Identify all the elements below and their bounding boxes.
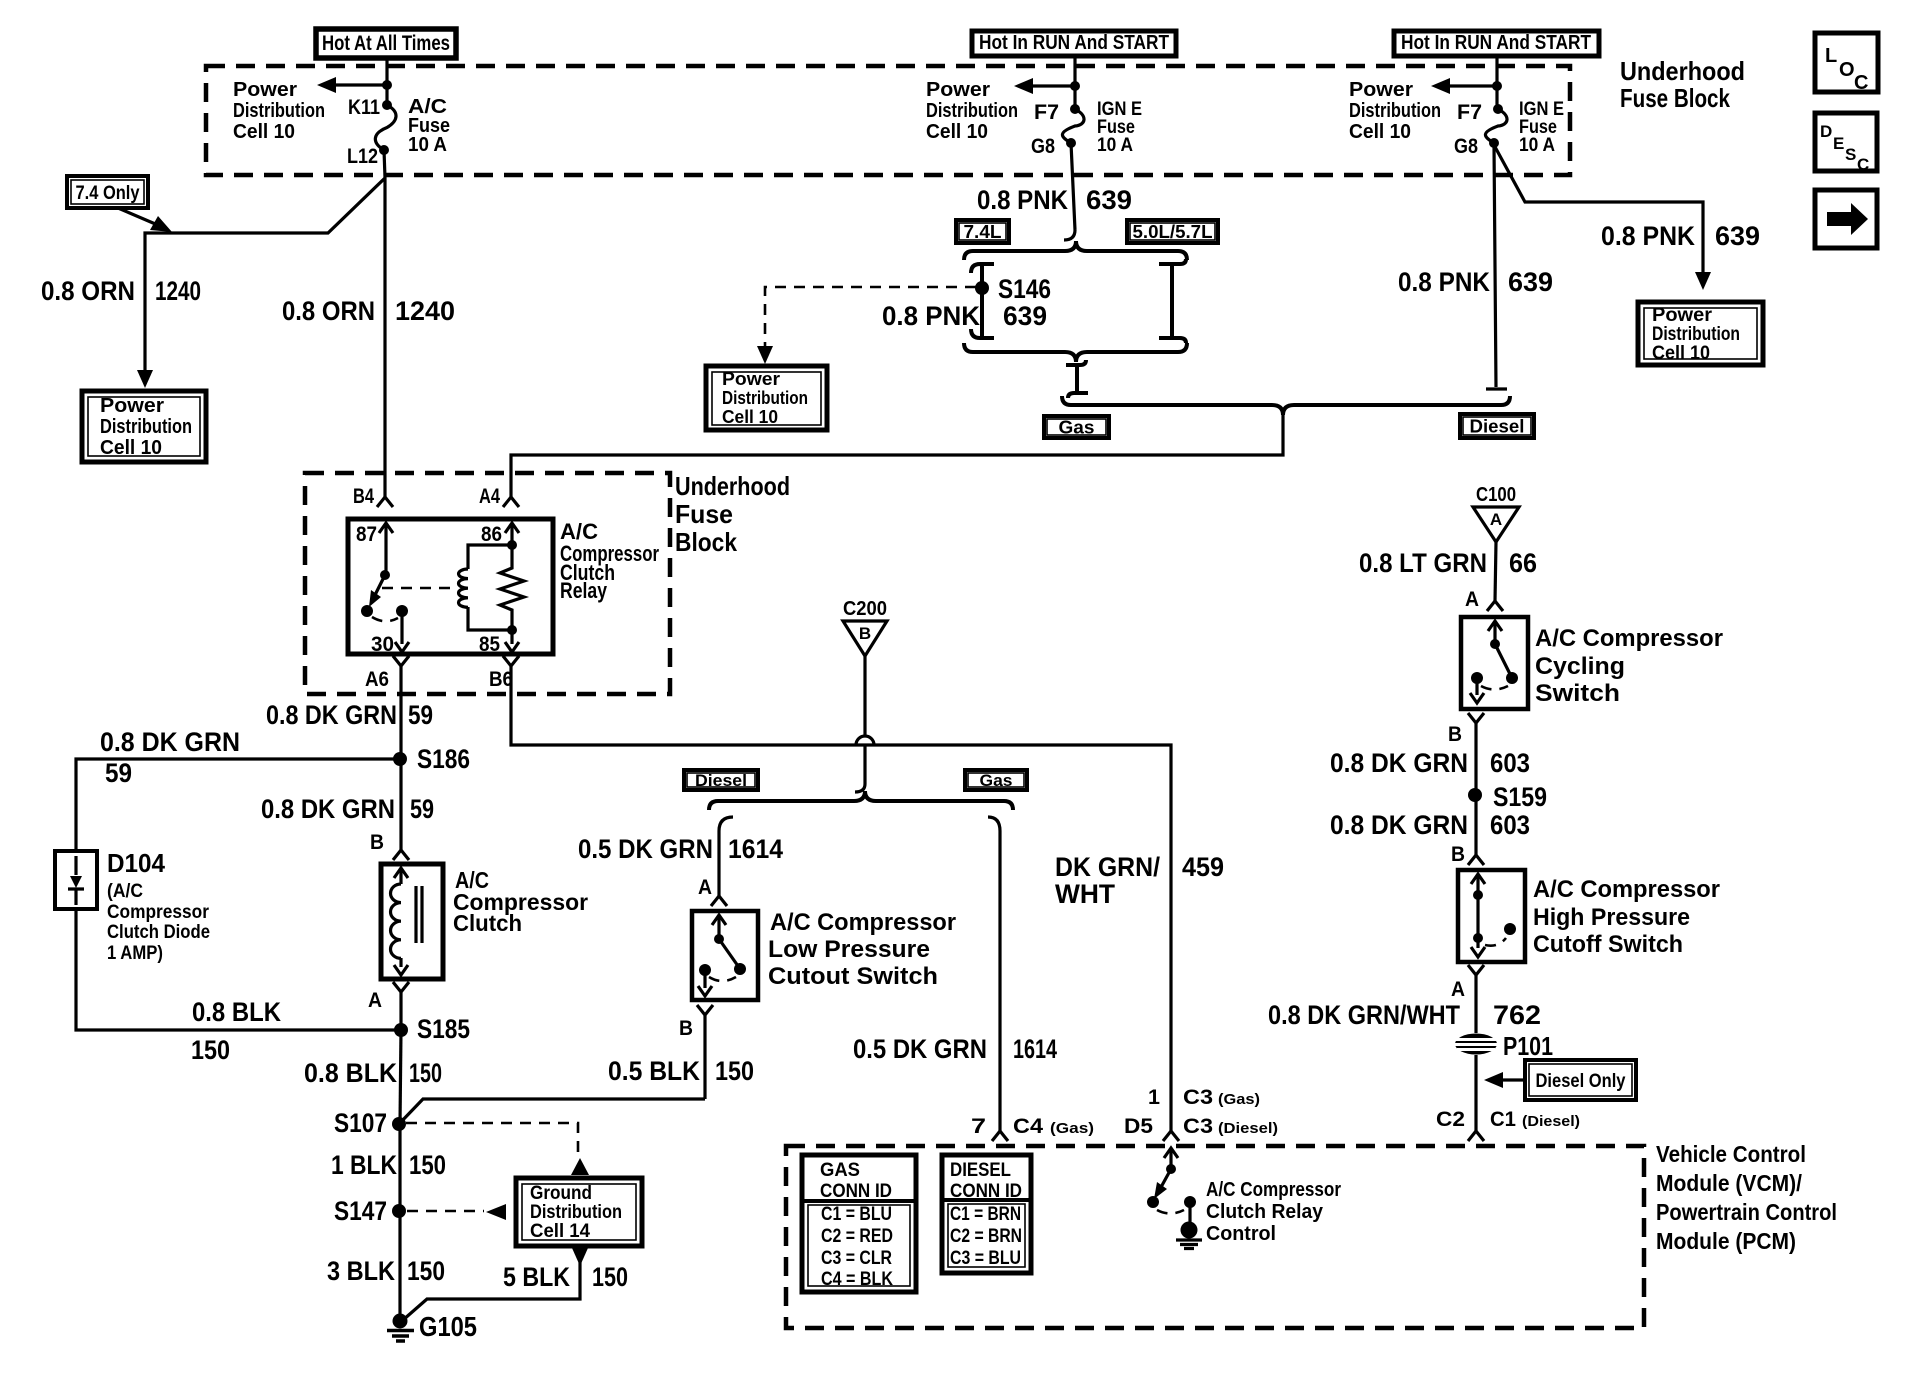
arrow from 7.4 Only box to wire: [118, 208, 172, 232]
svg-text:1614: 1614: [728, 834, 783, 864]
svg-text:O: O: [1839, 59, 1855, 81]
svg-text:0.8 DK GRN: 0.8 DK GRN: [100, 727, 240, 757]
svg-text:Distribution: Distribution: [233, 100, 325, 122]
VCM/PCM dashed outline: [786, 1146, 1644, 1328]
svg-text:Cell 10: Cell 10: [100, 437, 162, 459]
svg-text:Cell 10: Cell 10: [233, 121, 295, 143]
low pressure switch contacts: [698, 915, 746, 996]
wire label 0.8 DK GRN 59 (below S186): [261, 794, 434, 824]
svg-text:Clutch: Clutch: [453, 910, 522, 936]
svg-text:Power: Power: [1652, 305, 1713, 326]
wire from C200 down with hop over B6 wire: [855, 656, 874, 792]
splice S107: [334, 1108, 406, 1138]
svg-text:Distribution: Distribution: [100, 416, 192, 438]
svg-text:High Pressure: High Pressure: [1533, 904, 1690, 931]
wire label 0.5 DK GRN 1614 (diesel): [578, 834, 783, 864]
svg-text:59: 59: [408, 700, 433, 730]
svg-text:C2: C2: [1436, 1108, 1465, 1131]
svg-text:A/C Compressor: A/C Compressor: [1535, 625, 1723, 652]
svg-text:5.0L/5.7L: 5.0L/5.7L: [1133, 222, 1213, 242]
label box 5.0L/5.7L: [1127, 220, 1218, 243]
svg-text:E: E: [1833, 134, 1844, 153]
svg-text:66: 66: [1509, 548, 1537, 578]
svg-text:Hot At All Times: Hot At All Times: [322, 32, 450, 55]
label A/C Compressor Clutch Relay Control: [1206, 1179, 1341, 1245]
ground symbol (PCM clutch relay control): [1176, 1222, 1202, 1249]
svg-text:L12: L12: [347, 145, 378, 168]
wire 3 BLK 150 S147 to G105: [398, 1211, 401, 1318]
svg-text:Clutch Relay: Clutch Relay: [1206, 1201, 1324, 1223]
wire label 0.8 PNK 639 (at S146): [882, 301, 1047, 331]
svg-text:Gas: Gas: [1059, 417, 1095, 437]
svg-text:Diesel Only: Diesel Only: [1536, 1071, 1626, 1092]
wire label 3 BLK 150: [327, 1256, 445, 1286]
svg-text:85: 85: [479, 633, 500, 656]
label Power Distribution Cell 10 (top left): [233, 79, 325, 143]
svg-text:WHT: WHT: [1055, 879, 1115, 909]
svg-text:Power: Power: [233, 79, 297, 101]
svg-text:B: B: [370, 831, 384, 854]
svg-text:Distribution: Distribution: [722, 388, 808, 408]
svg-text:639: 639: [1003, 301, 1047, 331]
wire DK GRN from relay B6 to PCM control: [511, 666, 1171, 1131]
box Ground Distribution Cell 14: [516, 1178, 642, 1246]
svg-text:Switch: Switch: [1535, 680, 1620, 707]
cycling switch contacts: [1470, 621, 1518, 703]
svg-text:1 BLK: 1 BLK: [331, 1150, 397, 1180]
svg-text:0.8 DK GRN: 0.8 DK GRN: [1330, 810, 1468, 840]
wire label 0.8 BLK 150 (two-line left): [191, 997, 281, 1065]
label IGN E Fuse 10 A (right): [1519, 99, 1564, 156]
wire L12 down through fuse block edge: [384, 150, 385, 178]
splice S147: [334, 1196, 406, 1226]
svg-text:A: A: [698, 876, 712, 899]
wire 0.8 PNK 639 from G8 down (middle): [1064, 143, 1075, 240]
svg-text:A: A: [1490, 510, 1502, 529]
diode D104 symbol: [68, 856, 84, 905]
svg-text:Clutch Diode: Clutch Diode: [107, 922, 210, 943]
wire label 1 BLK 150: [331, 1150, 446, 1180]
pin A label and connector (cycling switch): [1465, 588, 1503, 611]
wire label 0.5 BLK 150: [608, 1056, 754, 1086]
splice S159: [1468, 782, 1547, 812]
wire label 0.8 ORN 1240 (left): [41, 276, 201, 306]
dashed reference S147 to Ground Distribution: [407, 1204, 506, 1220]
svg-text:(Gas): (Gas): [1050, 1120, 1094, 1137]
label box 7.4L: [956, 220, 1009, 243]
pin B6 label and connector: [489, 656, 519, 691]
wire 0.8 DK GRN/WHT 762: [1474, 975, 1477, 1033]
splice S146: [975, 274, 1051, 304]
svg-text:0.5 BLK: 0.5 BLK: [608, 1056, 700, 1086]
svg-text:0.8 PNK: 0.8 PNK: [977, 185, 1068, 215]
svg-text:0.8 DK GRN: 0.8 DK GRN: [261, 794, 395, 824]
svg-text:150: 150: [191, 1035, 230, 1065]
wire clutch A to S185: [399, 992, 402, 1030]
svg-text:A/C Compressor: A/C Compressor: [770, 909, 956, 936]
svg-text:C2 = RED: C2 = RED: [821, 1226, 893, 1247]
label D104 A/C Compressor Clutch Diode 1 AMP: [107, 848, 210, 964]
svg-text:Vehicle Control: Vehicle Control: [1656, 1141, 1806, 1167]
pin B label and connector (low pressure switch): [679, 1005, 713, 1040]
A/C Compressor Low Pressure Cutout Switch box: [692, 911, 758, 1000]
svg-text:B4: B4: [353, 485, 374, 508]
wire 0.8 BLK 150 from D104 to S185: [76, 909, 395, 1030]
svg-text:0.8 PNK: 0.8 PNK: [882, 301, 980, 331]
svg-text:Powertrain Control: Powertrain Control: [1656, 1199, 1837, 1225]
svg-text:0.5 DK GRN: 0.5 DK GRN: [853, 1034, 987, 1064]
svg-text:Cell 10: Cell 10: [926, 121, 988, 143]
svg-text:150: 150: [592, 1262, 628, 1292]
high pressure switch contacts: [1471, 874, 1516, 957]
svg-text:7.4L: 7.4L: [964, 222, 1002, 242]
svg-text:D: D: [1820, 122, 1832, 141]
label box "7.4 Only": [67, 176, 148, 208]
arrow to Power Distribution Cell 10 (right): [1431, 78, 1502, 94]
svg-text:7.4 Only: 7.4 Only: [76, 183, 140, 204]
pin A label and connector (high pressure switch): [1451, 965, 1484, 1001]
svg-text:Module (VCM)/: Module (VCM)/: [1656, 1170, 1803, 1196]
svg-text:Hot In RUN And START: Hot In RUN And START: [979, 32, 1169, 54]
PCM internal clutch relay control switch: [1147, 1148, 1196, 1226]
svg-text:B: B: [679, 1017, 693, 1040]
clutch coil symbol: [391, 868, 423, 975]
pin B label and connector (cycling switch): [1448, 713, 1484, 746]
wire label 0.8 DK GRN/WHT 762: [1268, 1000, 1541, 1030]
svg-text:A: A: [1451, 978, 1465, 1001]
svg-text:(A/C: (A/C: [107, 881, 143, 902]
svg-text:G8: G8: [1031, 135, 1055, 158]
label A/C Compressor Clutch: [453, 867, 588, 936]
svg-text:B: B: [1451, 843, 1465, 866]
icon box right-arrow: [1815, 190, 1877, 248]
pin G8 label (right): [1454, 135, 1478, 158]
svg-text:Underhood: Underhood: [1620, 56, 1745, 86]
svg-text:S147: S147: [334, 1196, 387, 1226]
pin F7 label (right): [1457, 101, 1482, 124]
pin K11 label: [348, 96, 380, 119]
svg-text:Compressor: Compressor: [107, 902, 210, 923]
label box Diesel Only with arrow: [1484, 1060, 1636, 1100]
wire label DK GRN/WHT 459: [1055, 852, 1224, 909]
fuse IGN E Fuse 10A (middle): [1062, 104, 1084, 148]
wire from fuel-option merge down to A4 feed line: [511, 413, 1283, 497]
arrow into Power Distribution Cell 10 (far right): [1695, 272, 1711, 290]
relay pin 86 (arrow up) and label: [481, 523, 519, 546]
svg-text:A4: A4: [479, 485, 500, 508]
svg-text:0.8 DK GRN: 0.8 DK GRN: [266, 700, 397, 730]
underhood fuse block (top) dashed outline: [206, 66, 1570, 175]
wire label 0.8 BLK 150 (below S185): [304, 1058, 442, 1088]
svg-text:150: 150: [407, 1256, 445, 1286]
dashed reference wire S146 to Power Distribution: [765, 287, 976, 348]
svg-text:1: 1: [1148, 1086, 1160, 1109]
wire from Hot In RUN to fuse F7 (middle): [1073, 55, 1076, 109]
pin A6 label and connector: [365, 656, 409, 691]
svg-text:1240: 1240: [395, 296, 455, 326]
box Power Distribution Cell 10 (far right): [1638, 302, 1763, 365]
table DIESEL CONN ID: [942, 1155, 1031, 1273]
svg-text:10 A: 10 A: [1097, 135, 1133, 156]
svg-text:B: B: [859, 624, 871, 643]
wire label 0.5 DK GRN 1614 (gas): [853, 1034, 1057, 1064]
svg-text:A6: A6: [365, 668, 389, 691]
svg-text:C1: C1: [1490, 1108, 1516, 1131]
svg-text:D104: D104: [107, 848, 166, 878]
svg-text:87: 87: [356, 523, 377, 546]
svg-text:Gas: Gas: [980, 771, 1013, 790]
wire P101 to PCM C1/C2: [1474, 1055, 1477, 1131]
wire 7.4L branch with S146 splice: [971, 264, 994, 338]
svg-text:S186: S186: [417, 744, 470, 774]
svg-text:0.8 ORN: 0.8 ORN: [41, 276, 135, 306]
ground G105: [387, 1311, 477, 1342]
svg-text:A/C Compressor: A/C Compressor: [1206, 1179, 1341, 1201]
svg-text:150: 150: [715, 1056, 754, 1086]
svg-text:C3: C3: [1183, 1115, 1213, 1138]
svg-text:Diesel: Diesel: [695, 771, 747, 790]
svg-text:DIESEL: DIESEL: [950, 1160, 1011, 1181]
pin A label and connector (clutch): [368, 982, 409, 1012]
fuse A/C Fuse 10A (K11-L12): [375, 100, 396, 155]
label Vehicle Control Module (VCM)/ Powertrain Control Module (PCM): [1656, 1141, 1837, 1254]
svg-text:CONN ID: CONN ID: [950, 1181, 1022, 1202]
icon box DESC: [1815, 113, 1877, 174]
label Power Distribution Cell 10 (middle): [926, 79, 1018, 143]
svg-text:Low Pressure: Low Pressure: [768, 936, 930, 963]
A/C Compressor Cycling Switch box: [1461, 617, 1528, 709]
wire 0.8 DK GRN 603 to high pressure switch: [1474, 795, 1477, 855]
wire 1 BLK 150 S107 to S147: [398, 1124, 401, 1211]
label IGN E Fuse 10 A (middle): [1097, 99, 1142, 156]
svg-text:S107: S107: [334, 1108, 387, 1138]
svg-text:Cutout Switch: Cutout Switch: [768, 963, 938, 990]
svg-text:C3 = BLU: C3 = BLU: [950, 1248, 1021, 1269]
svg-text:C3: C3: [1183, 1086, 1213, 1109]
relay box A/C Compressor Clutch Relay: [348, 519, 553, 654]
svg-text:F7: F7: [1034, 101, 1059, 124]
svg-text:30: 30: [371, 633, 394, 656]
wire 0.8 LT GRN 66 from C100: [1495, 542, 1496, 601]
svg-text:Distribution: Distribution: [1652, 324, 1740, 345]
wire label 5 BLK 150: [503, 1262, 628, 1292]
wire label 0.8 DK GRN 603 (lower): [1330, 810, 1530, 840]
pin A4 label and connector: [479, 485, 519, 508]
pin B label and connector (high pressure switch): [1451, 843, 1484, 866]
wire 0.8 PNK 639 branch to Power Distribution (right): [1494, 145, 1703, 272]
svg-text:0.8 PNK: 0.8 PNK: [1601, 221, 1695, 251]
A/C Compressor Clutch box: [381, 864, 443, 979]
svg-text:C100: C100: [1476, 484, 1516, 506]
svg-text:0.8 DK GRN/WHT: 0.8 DK GRN/WHT: [1268, 1000, 1460, 1030]
svg-text:150: 150: [409, 1058, 442, 1088]
wire from Hot In RUN to fuse F7 (right): [1495, 55, 1498, 109]
svg-text:Distribution: Distribution: [1349, 100, 1441, 122]
svg-text:Cell 10: Cell 10: [1349, 121, 1411, 143]
svg-text:Relay: Relay: [560, 578, 608, 603]
svg-text:603: 603: [1490, 748, 1530, 778]
wire Diesel branch 0.5 DK GRN 1614: [719, 817, 733, 896]
pin B4 label and connector: [353, 485, 393, 508]
label box Diesel (lower): [684, 770, 758, 790]
svg-text:Distribution: Distribution: [530, 1202, 622, 1223]
fuse IGN E Fuse 10A (right): [1485, 104, 1507, 148]
icon box LOC: [1815, 33, 1878, 94]
box Power Distribution Cell 10 (middle): [706, 366, 827, 430]
svg-text:CONN ID: CONN ID: [820, 1181, 892, 1202]
pin 7 / C4 (Gas) connector at PCM: [971, 1115, 1094, 1141]
wire from Hot At All Times to fuse K11: [385, 57, 388, 105]
wire label 0.8 DK GRN 603 (upper): [1330, 748, 1530, 778]
wire 0.8 PNK 639 vertical (diesel feed): [1486, 145, 1507, 389]
grommet P101: [1455, 1031, 1553, 1061]
wire 0.8 DK GRN 59 from S186 to clutch B: [399, 759, 402, 850]
svg-text:Power: Power: [1349, 79, 1413, 101]
table GAS CONN ID: [802, 1155, 916, 1292]
label A/C Compressor High Pressure Cutoff Switch: [1533, 876, 1720, 958]
wire Gas branch DK GRN 1614 to PCM C4: [988, 817, 1000, 1131]
svg-text:59: 59: [105, 758, 132, 788]
svg-text:DK GRN/: DK GRN/: [1055, 852, 1160, 882]
brace split (Diesel/Gas at C200): [709, 791, 1013, 810]
pin L12 label: [347, 145, 378, 168]
wire label 0.8 PNK 639 (far right): [1601, 221, 1760, 251]
svg-text:C1 = BRN: C1 = BRN: [950, 1204, 1021, 1225]
wire label 0.8 ORN 1240 (main): [282, 296, 455, 326]
svg-text:C: C: [1857, 155, 1869, 174]
svg-text:P101: P101: [1503, 1031, 1553, 1061]
wire segment below engine-option merge: [1066, 360, 1088, 398]
box Power Distribution Cell 10 (left): [82, 391, 206, 462]
arrow to Power Distribution Cell 10 (middle): [1014, 78, 1080, 94]
svg-text:(Gas): (Gas): [1218, 1091, 1260, 1108]
wire label 0.8 PNK 639 (middle): [977, 185, 1132, 215]
svg-text:1240: 1240: [155, 276, 201, 306]
svg-text:459: 459: [1182, 852, 1224, 882]
svg-text:D5: D5: [1124, 1115, 1153, 1138]
svg-text:G105: G105: [419, 1311, 477, 1342]
relay coil (inductor): [459, 545, 513, 607]
svg-text:(Diesel): (Diesel): [1218, 1120, 1278, 1137]
pin C2 / C1 (Diesel) connector at PCM: [1436, 1108, 1580, 1141]
brace merge (Gas/Diesel fuel options): [1062, 396, 1510, 415]
svg-text:Underhood: Underhood: [675, 471, 790, 501]
label A/C Compressor Clutch Relay: [560, 519, 659, 603]
relay pin 87 (arrow up) and label: [356, 523, 393, 580]
svg-text:0.8 ORN: 0.8 ORN: [282, 296, 375, 326]
label Power Distribution Cell 10 (right): [1349, 79, 1441, 143]
svg-text:10 A: 10 A: [408, 134, 447, 156]
svg-text:C4 = BLK: C4 = BLK: [821, 1269, 893, 1290]
svg-text:5 BLK: 5 BLK: [503, 1262, 570, 1292]
label box "Hot In RUN And START" (right): [1394, 31, 1599, 56]
pin F7 label (middle): [1034, 101, 1059, 124]
label box Gas (upper): [1044, 416, 1109, 438]
arrow to Power Distribution Cell 10 (left): [317, 77, 392, 93]
svg-text:59: 59: [410, 794, 434, 824]
svg-text:Cell 10: Cell 10: [722, 407, 778, 427]
connector C200 triangle: [843, 598, 887, 656]
svg-text:3 BLK: 3 BLK: [327, 1256, 395, 1286]
label A/C Compressor Low Pressure Cutout Switch: [768, 909, 956, 990]
label box Diesel (upper): [1460, 414, 1534, 438]
svg-text:Block: Block: [675, 527, 737, 557]
diode D104 box: [55, 851, 97, 909]
relay switch blade 87-30: [361, 575, 385, 617]
svg-text:C3 = CLR: C3 = CLR: [821, 1248, 892, 1269]
svg-text:Distribution: Distribution: [926, 100, 1018, 122]
svg-text:150: 150: [409, 1150, 446, 1180]
svg-text:1614: 1614: [1013, 1034, 1057, 1064]
svg-text:K11: K11: [348, 96, 380, 119]
relay actuation dashed link: [382, 587, 458, 590]
pin G8 label (middle): [1031, 135, 1055, 158]
svg-text:0.8 DK GRN: 0.8 DK GRN: [1330, 748, 1468, 778]
relay pin 30 (arrow down) and label: [371, 605, 409, 656]
svg-text:Cycling: Cycling: [1535, 653, 1625, 680]
svg-text:0.8 PNK: 0.8 PNK: [1398, 267, 1490, 297]
connector C100 triangle: [1473, 484, 1519, 542]
label Underhood Fuse Block (relay): [675, 471, 790, 557]
svg-text:Cell 14: Cell 14: [530, 1221, 590, 1242]
svg-text:Control: Control: [1206, 1223, 1276, 1245]
svg-text:Power: Power: [100, 395, 164, 417]
wire 0.8 BLK 150 from S185 to S107: [400, 1030, 401, 1124]
wire 0.8 DK GRN 603 to S159: [1474, 723, 1477, 795]
label A/C Compressor Cycling Switch: [1535, 625, 1723, 707]
splice S185: [394, 1014, 470, 1044]
svg-text:A: A: [368, 989, 382, 1012]
wire label 0.8 LT GRN 66: [1359, 548, 1537, 578]
relay coil (inductor) lower lead: [468, 607, 512, 630]
svg-text:Cutoff Switch: Cutoff Switch: [1533, 931, 1683, 958]
brace split (engine options) upper: [964, 241, 1187, 260]
svg-text:Hot In RUN And START: Hot In RUN And START: [1401, 32, 1591, 54]
svg-text:C2 = BRN: C2 = BRN: [950, 1226, 1022, 1247]
A/C Compressor High Pressure Cutoff Switch box: [1458, 870, 1525, 962]
svg-text:Diesel: Diesel: [1470, 416, 1525, 436]
label box "Hot In RUN And START" (middle): [972, 31, 1176, 56]
svg-text:603: 603: [1490, 810, 1530, 840]
svg-text:639: 639: [1508, 267, 1553, 297]
svg-text:S159: S159: [1493, 782, 1547, 812]
svg-text:10 A: 10 A: [1519, 135, 1555, 156]
dashed reference S107 to Ground Distribution: [406, 1123, 589, 1175]
svg-text:762: 762: [1493, 1000, 1541, 1030]
wire 0.5 BLK 150 from low pressure switch joining S107: [399, 1099, 705, 1124]
relay pin 85 (arrow down) and label: [479, 630, 519, 656]
wire 0.8 DK GRN 59 branch to D104 (left): [76, 759, 400, 851]
wire label 0.8 PNK 639 (right mid): [1398, 267, 1553, 297]
pin B label and connector (clutch): [370, 831, 409, 860]
svg-text:Cell 10: Cell 10: [1652, 343, 1710, 364]
label box Gas (lower): [965, 770, 1027, 790]
svg-text:Fuse: Fuse: [675, 499, 733, 529]
wire 0.8 DK GRN 59 from A6 to S186: [399, 666, 402, 753]
svg-text:0.5 DK GRN: 0.5 DK GRN: [578, 834, 713, 864]
svg-text:0.8 BLK: 0.8 BLK: [192, 997, 281, 1027]
arrow into Power Distribution Cell 10 box (left): [137, 370, 153, 388]
svg-text:86: 86: [481, 523, 502, 546]
svg-text:639: 639: [1715, 221, 1760, 251]
svg-text:F7: F7: [1457, 101, 1482, 124]
pin A label and connector (low pressure switch): [698, 876, 727, 906]
wire 5.0L/5.7L branch: [1159, 259, 1186, 343]
svg-text:C: C: [1854, 72, 1868, 94]
svg-text:A: A: [1465, 588, 1479, 611]
label Underhood Fuse Block (top right): [1620, 56, 1745, 113]
wire 0.8 ORN 1240 main vertical to relay B4: [383, 178, 386, 497]
